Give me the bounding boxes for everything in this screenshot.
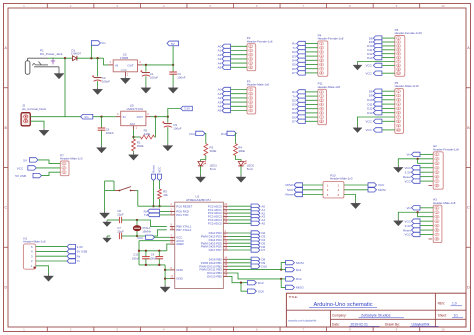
- svg-text:3.3V: 3.3V: [405, 170, 411, 174]
- svg-text:pin_terminal_block: pin_terminal_block: [22, 107, 47, 111]
- svg-text:GND: GND: [176, 277, 182, 281]
- svg-text:16MHz: 16MHz: [142, 230, 151, 234]
- svg-text:5V: 5V: [23, 159, 27, 163]
- svg-text:C: C: [4, 206, 7, 210]
- svg-text:100nF: 100nF: [132, 256, 140, 260]
- svg-text:5V USB: 5V USB: [15, 174, 26, 178]
- svg-text:Header-Female-1x8: Header-Female-1x8: [433, 147, 459, 151]
- svg-text:3.3V: 3.3V: [77, 245, 83, 249]
- svg-text:D13: D13: [258, 281, 264, 285]
- svg-text:C4: C4: [151, 253, 155, 257]
- svg-text:DIG7 PD7: DIG7 PD7: [209, 248, 223, 252]
- svg-text:REV:: REV:: [438, 302, 446, 306]
- svg-text:MISO: MISO: [296, 286, 304, 290]
- svg-text:VCC: VCC: [17, 166, 24, 170]
- svg-text:easyeda.com/udaykarthik: easyeda.com/udaykarthik: [288, 320, 317, 323]
- svg-text:SCK: SCK: [287, 188, 293, 192]
- svg-text:10: 10: [441, 4, 445, 8]
- svg-text:MISO: MISO: [286, 183, 294, 187]
- svg-text:D: D: [4, 285, 7, 289]
- svg-text:300E: 300E: [210, 149, 217, 153]
- svg-text:Header-Female-1x8: Header-Female-1x8: [318, 37, 344, 41]
- svg-text:VCC: VCC: [189, 132, 196, 136]
- svg-text:DC_Power_Jack: DC_Power_Jack: [40, 52, 63, 56]
- svg-text:ATMEGA328P-PU: ATMEGA328P-PU: [186, 198, 211, 202]
- svg-text:MOSI: MOSI: [378, 188, 386, 192]
- svg-text:IN: IN: [123, 115, 126, 119]
- svg-text:VCC: VCC: [365, 71, 372, 75]
- svg-text:D: D: [467, 285, 470, 289]
- svg-text:LM317T-DG: LM317T-DG: [127, 107, 144, 111]
- svg-text:D12: D12: [296, 277, 302, 281]
- svg-text:VCC: VCC: [158, 167, 162, 173]
- svg-text:PD1 TXD: PD1 TXD: [176, 213, 188, 217]
- svg-text:MOSI: MOSI: [296, 261, 304, 265]
- svg-text:PC5 ADC5: PC5 ADC5: [208, 221, 222, 225]
- svg-text:D11: D11: [296, 268, 302, 272]
- svg-text:D7: D7: [261, 248, 265, 252]
- svg-text:100uF: 100uF: [102, 80, 110, 84]
- svg-text:GND: GND: [176, 268, 182, 272]
- svg-text:5mm: 5mm: [247, 167, 254, 171]
- svg-text:Vin: Vin: [407, 153, 412, 157]
- svg-text:1.0: 1.0: [452, 302, 457, 306]
- svg-text:1N4007: 1N4007: [71, 52, 82, 56]
- svg-text:D7: D7: [292, 120, 296, 124]
- svg-text:Header-Male-1x5: Header-Male-1x5: [23, 240, 46, 244]
- svg-text:Drawn By:: Drawn By:: [385, 322, 400, 326]
- svg-text:100nF: 100nF: [177, 75, 185, 79]
- svg-text:VCC: VCC: [365, 120, 372, 124]
- svg-text:D13: D13: [367, 56, 373, 60]
- svg-text:100uF: 100uF: [173, 126, 181, 130]
- svg-text:10: 10: [441, 328, 445, 332]
- svg-text:DIG13 PB5: DIG13 PB5: [207, 275, 222, 279]
- svg-text:Header-Male-1x3: Header-Male-1x3: [60, 157, 83, 161]
- svg-text:390E: 390E: [137, 144, 144, 148]
- svg-text:Vin: Vin: [101, 41, 106, 45]
- svg-text:AREF: AREF: [176, 242, 184, 246]
- svg-text:22pF: 22pF: [117, 229, 124, 233]
- svg-text:D7: D7: [292, 71, 296, 75]
- svg-text:VCC: VCC: [404, 166, 411, 170]
- svg-text:IN: IN: [115, 63, 118, 67]
- svg-text:5V: 5V: [171, 42, 175, 46]
- svg-text:VCC: VCC: [137, 236, 144, 240]
- svg-text:3.3V: 3.3V: [405, 224, 411, 228]
- svg-text:100nF: 100nF: [150, 256, 158, 260]
- svg-text:VCC: VCC: [404, 179, 411, 183]
- svg-text:Rx: Rx: [77, 254, 81, 258]
- svg-text:PC6 RESET: PC6 RESET: [176, 204, 192, 208]
- svg-text:D13: D13: [367, 111, 373, 115]
- svg-text:C: C: [467, 206, 470, 210]
- svg-text:C10: C10: [133, 253, 138, 257]
- svg-text:Reset: Reset: [152, 165, 156, 173]
- svg-text:VCC: VCC: [378, 183, 385, 187]
- svg-text:5V USB: 5V USB: [77, 250, 88, 254]
- svg-text:Header-Male-1x6: Header-Male-1x6: [247, 83, 270, 87]
- svg-text:A5: A5: [218, 66, 222, 70]
- svg-text:Sheet:: Sheet:: [438, 313, 447, 317]
- svg-text:Company:: Company:: [332, 313, 347, 317]
- svg-text:10k: 10k: [163, 193, 168, 197]
- svg-text:100nF: 100nF: [106, 131, 114, 135]
- svg-text:3.3V: 3.3V: [184, 107, 190, 111]
- svg-text:VCC: VCC: [365, 64, 372, 68]
- svg-text:SCK: SCK: [258, 289, 264, 293]
- svg-text:240E: 240E: [144, 132, 151, 136]
- svg-text:Reset: Reset: [403, 228, 411, 232]
- svg-text:A5: A5: [218, 109, 222, 113]
- svg-text:Reset: Reset: [403, 175, 411, 179]
- svg-text:Arduino-Uno schematic: Arduino-Uno schematic: [313, 302, 372, 308]
- svg-text:Reset: Reset: [285, 193, 293, 197]
- svg-text:Header-Male-1x8: Header-Male-1x8: [318, 85, 341, 89]
- svg-text:100uF: 100uF: [150, 75, 158, 79]
- svg-text:ADJ: ADJ: [130, 122, 136, 126]
- svg-text:GND: GND: [121, 68, 127, 72]
- svg-text:300E: 300E: [238, 149, 245, 153]
- svg-text:Header-Male-2x3: Header-Male-2x3: [330, 177, 353, 181]
- svg-text:OUT: OUT: [127, 63, 133, 67]
- svg-text:1/1: 1/1: [454, 313, 459, 317]
- svg-text:D13: D13: [221, 132, 227, 136]
- svg-text:2019-02-21: 2019-02-21: [351, 322, 368, 326]
- svg-text:L7805: L7805: [120, 56, 129, 60]
- svg-text:5mm: 5mm: [210, 167, 217, 171]
- svg-text:VCC: VCC: [404, 233, 411, 237]
- svg-text:A5: A5: [261, 222, 265, 226]
- svg-text:Header-Male-1x10: Header-Male-1x10: [395, 84, 419, 88]
- svg-text:Vin: Vin: [407, 206, 412, 210]
- svg-text:OUT: OUT: [137, 115, 144, 119]
- svg-text:TITLE:: TITLE:: [289, 295, 298, 299]
- svg-text:Header-Female-1x6: Header-Female-1x6: [247, 39, 273, 43]
- svg-text:PB7 XTAL2: PB7 XTAL2: [176, 228, 191, 232]
- svg-text:Vin: Vin: [84, 115, 89, 119]
- svg-text:Tx: Tx: [77, 259, 81, 263]
- svg-text:VCC: VCC: [404, 219, 411, 223]
- svg-text:Header-Female-1x10: Header-Female-1x10: [395, 31, 423, 35]
- svg-text:Udaykarthik: Udaykarthik: [412, 322, 430, 326]
- svg-text:D10: D10: [261, 264, 267, 268]
- svg-text:Date:: Date:: [332, 322, 340, 326]
- svg-text:22pF: 22pF: [117, 213, 124, 217]
- svg-text:Zettabyte Studios: Zettabyte Studios: [361, 313, 391, 317]
- svg-text:Header-Male-1x8: Header-Male-1x8: [433, 201, 456, 205]
- svg-text:VCC: VCC: [365, 128, 372, 132]
